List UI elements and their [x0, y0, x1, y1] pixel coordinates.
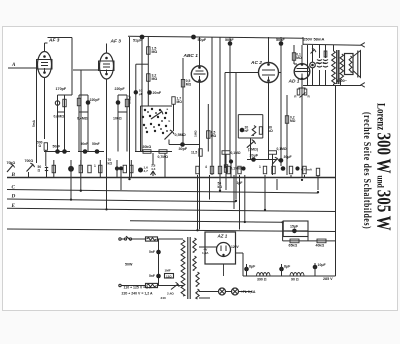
svg-text:b: b [169, 119, 171, 123]
svg-text:120V: 120V [231, 245, 240, 249]
svg-text:0,4MΩ: 0,4MΩ [77, 117, 88, 121]
svg-text:30μF: 30μF [284, 155, 293, 159]
svg-text:50nF: 50nF [53, 145, 61, 149]
svg-text:50nF: 50nF [225, 38, 234, 42]
svg-text:Ω: Ω [39, 144, 42, 148]
svg-text:50nF: 50nF [276, 38, 285, 42]
svg-text:220pF: 220pF [90, 98, 101, 102]
svg-text:20nF: 20nF [153, 91, 162, 95]
svg-text:AF 3: AF 3 [48, 38, 60, 44]
svg-text:kΩ: kΩ [218, 185, 223, 189]
svg-text:50W: 50W [125, 263, 133, 267]
svg-text:MΩ: MΩ [290, 119, 296, 123]
svg-text:220 ÷ 240 V = 1,2 A: 220 ÷ 240 V = 1,2 A [122, 292, 154, 296]
svg-text:1,9A: 1,9A [202, 251, 209, 255]
svg-text:110 ÷ 125 V = 2 A: 110 ÷ 125 V = 2 A [124, 286, 152, 290]
svg-text:AF 3: AF 3 [110, 39, 122, 45]
svg-text:(1MΩ): (1MΩ) [248, 148, 258, 152]
svg-text:65kΩ: 65kΩ [289, 244, 298, 248]
svg-text:kΩ: kΩ [268, 129, 273, 133]
svg-text:kΩ: kΩ [108, 162, 113, 166]
svg-text:MΩ: MΩ [152, 50, 158, 54]
svg-text:0,7MΩ: 0,7MΩ [158, 155, 169, 159]
svg-text:30kΩ: 30kΩ [143, 145, 152, 149]
svg-text:8μF: 8μF [284, 265, 291, 269]
svg-text:51μF: 51μF [133, 39, 142, 43]
svg-text:ABC 1: ABC 1 [183, 53, 199, 59]
svg-text:10μF: 10μF [318, 263, 327, 267]
svg-text:4,7: 4,7 [144, 169, 149, 173]
svg-text:30pF: 30pF [179, 147, 188, 151]
svg-text:5nF: 5nF [149, 250, 155, 254]
svg-text:(rechte Seite des Schaltbildes: (rechte Seite des Schaltbildes) [361, 112, 372, 229]
svg-text:5mA: 5mA [32, 119, 36, 127]
svg-text:AC 2: AC 2 [250, 60, 262, 66]
svg-text:0,6MΩ: 0,6MΩ [54, 115, 65, 119]
svg-text:0,05μF: 0,05μF [128, 95, 132, 104]
svg-text:8μF: 8μF [249, 265, 256, 269]
svg-text:A: A [11, 62, 16, 68]
svg-text:700Ω: 700Ω [25, 159, 34, 163]
svg-text:Cs: Cs [323, 61, 327, 65]
svg-text:MΩ: MΩ [177, 100, 183, 104]
svg-text:1: 1 [259, 165, 261, 169]
svg-text:1MF: 1MF [165, 269, 171, 273]
svg-text:0,5MΩ: 0,5MΩ [175, 133, 186, 137]
svg-text:4,3: 4,3 [151, 167, 156, 171]
svg-text:20μF: 20μF [250, 154, 259, 158]
svg-text:1: 1 [94, 164, 96, 168]
svg-text:AZ 1: AZ 1 [217, 234, 228, 239]
svg-text:MΩ: MΩ [186, 82, 192, 86]
svg-text:AD 1: AD 1 [288, 79, 300, 85]
svg-text:50nF: 50nF [81, 142, 89, 146]
svg-text:170pF: 170pF [56, 87, 67, 91]
svg-text:15μF: 15μF [290, 225, 299, 229]
svg-text:MΩ: MΩ [296, 56, 302, 60]
svg-text:0,75mA: 0,75mA [301, 168, 313, 172]
svg-text:MΩ: MΩ [152, 77, 158, 81]
svg-text:285 V: 285 V [323, 277, 333, 281]
svg-text:40kΩ: 40kΩ [316, 244, 325, 248]
svg-text:MΩ: MΩ [211, 134, 217, 138]
svg-text:2,4Ω: 2,4Ω [167, 292, 174, 296]
svg-text:40μ: 40μ [316, 61, 321, 65]
svg-text:0,1MΩ: 0,1MΩ [231, 151, 241, 155]
svg-text:11,5: 11,5 [191, 151, 197, 155]
svg-text:+FL 0,6A: +FL 0,6A [241, 290, 256, 294]
svg-text:0,1MΩ: 0,1MΩ [277, 147, 287, 151]
svg-text:12Ω: 12Ω [166, 275, 172, 279]
svg-text:5nF: 5nF [149, 274, 155, 278]
svg-text:90 Ω: 90 Ω [291, 278, 299, 282]
svg-text:nF: nF [245, 129, 249, 133]
svg-text:1200~: 1200~ [337, 79, 348, 83]
svg-text:390 Ω: 390 Ω [257, 278, 267, 282]
svg-text:1μF: 1μF [237, 181, 243, 185]
svg-text:240: 240 [161, 296, 166, 300]
svg-text:50μF: 50μF [198, 38, 207, 42]
svg-text:μF: μF [139, 92, 143, 96]
svg-text:100Ω: 100Ω [113, 117, 122, 121]
svg-text:1MΩ: 1MΩ [194, 130, 198, 137]
svg-text:Ω: Ω [38, 169, 41, 173]
svg-text:4: 4 [205, 165, 207, 169]
svg-text:50nF: 50nF [92, 142, 100, 146]
svg-text:250V 58mA: 250V 58mA [303, 37, 324, 42]
svg-text:220pF: 220pF [115, 87, 126, 91]
